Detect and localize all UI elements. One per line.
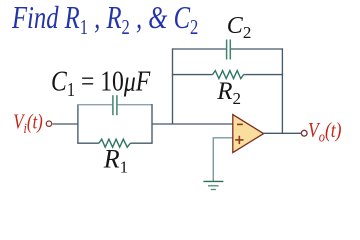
wire: op-amp noninverting input [213,138,233,181]
op-amp minus sign [237,123,243,125]
capacitor C1 plates [112,95,114,115]
wire: op-amp output [264,132,301,134]
svg-text:C2: C2 [227,13,252,42]
svg-text:Vi(t): Vi(t) [13,111,42,136]
ground [203,180,223,182]
wire: input terminal to parallel box [53,123,78,125]
resistor R1 zigzag [99,139,130,147]
input terminal Vi [46,121,51,126]
wire: C2 top wire right segment [231,48,283,50]
resistor R2 zigzag [213,71,244,79]
op-amp plus sign [235,139,243,141]
svg-text:Vo(t): Vo(t) [308,120,341,145]
svg-text:R2: R2 [216,78,241,108]
wire: R2 wire left segment [172,74,213,76]
wire: box right edge [151,104,153,143]
wire: box top edge left of C1 [77,104,112,106]
wire: box top edge right of C1 [118,104,153,106]
wire: box left edge [77,104,79,143]
wire: box bottom edge left of R1 [77,142,99,144]
wire: feedback left vertical [172,48,174,124]
svg-text:R1: R1 [103,145,128,177]
capacitor C2 plates [226,40,228,60]
wire: box to op-amp inverting input [152,123,233,125]
op-amp U1 [233,115,264,153]
svg-text:C1 = 10μF: C1 = 10μF [51,64,151,100]
output terminal Vo [301,130,307,136]
svg-text:Find R1 , R2 , & C2: Find R1 , R2 , & C2 [11,1,198,40]
wire: R2 wire right segment [244,74,283,76]
wire: box bottom edge right of R1 [130,142,152,144]
wire: C2 top wire left segment [173,48,226,50]
wire: feedback right vertical [281,48,283,133]
